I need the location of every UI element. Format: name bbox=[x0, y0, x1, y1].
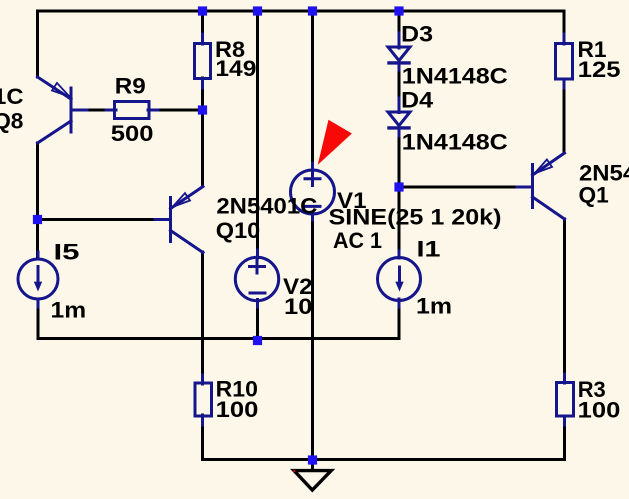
resistor R8 bbox=[195, 34, 211, 88]
wire R9 to junction bbox=[148, 109, 203, 112]
svg-text:1N4148C: 1N4148C bbox=[402, 130, 508, 155]
red speck at ground corner bbox=[293, 470, 295, 472]
resistor R1 bbox=[556, 34, 573, 88]
wire V1 top column bbox=[311, 11, 314, 171]
svg-text:100: 100 bbox=[216, 397, 259, 422]
svg-text:D3: D3 bbox=[401, 22, 433, 47]
svg-text:1m: 1m bbox=[51, 298, 87, 323]
svg-text:100: 100 bbox=[578, 398, 621, 423]
svg-text:R9: R9 bbox=[115, 74, 146, 99]
junction ground bbox=[308, 455, 317, 464]
voltage source V2 bbox=[235, 250, 278, 307]
svg-text:D4: D4 bbox=[401, 88, 434, 113]
wire D3 to D4 bbox=[398, 63, 401, 112]
svg-text:SINE(25 1 20k): SINE(25 1 20k) bbox=[329, 205, 502, 230]
svg-text:149: 149 bbox=[215, 56, 256, 81]
wire V1 bottom to ground bbox=[311, 214, 314, 471]
svg-text:I5: I5 bbox=[54, 240, 80, 265]
wire R8 bottom to junction to Q10 emitter bbox=[201, 78, 204, 186]
resistor R10 bbox=[195, 375, 212, 425]
mouse cursor red arrow bbox=[318, 120, 352, 165]
wire R10 bottom to ground rail bbox=[203, 415, 565, 460]
wire Q10 base bbox=[38, 218, 169, 221]
svg-text:500: 500 bbox=[111, 121, 154, 146]
transistor Q1 bbox=[517, 153, 565, 219]
wire R1 to Q1 emitter bbox=[563, 79, 566, 153]
wire Q1 collector to R3 bbox=[563, 219, 566, 383]
svg-text:AC 1: AC 1 bbox=[333, 228, 382, 253]
svg-text:10: 10 bbox=[284, 294, 312, 319]
wire diode column bbox=[398, 11, 401, 47]
wire Q10 collector to R10 bbox=[201, 252, 204, 384]
junction top rail D3 bbox=[394, 6, 403, 15]
junction top rail V1 bbox=[308, 6, 317, 15]
diode D3 bbox=[388, 33, 410, 70]
svg-text:Q10: Q10 bbox=[216, 218, 260, 243]
transistor Q10 bbox=[155, 187, 203, 253]
junction top rail R8 bbox=[198, 6, 207, 15]
resistor R9 bbox=[106, 102, 158, 119]
junction Q10 base bbox=[33, 215, 42, 224]
wire R8 column bbox=[201, 11, 204, 44]
junction R9 R8 Q10 bbox=[198, 105, 207, 114]
wire V2 top column bbox=[256, 11, 259, 258]
wire Q1 base bbox=[399, 186, 531, 189]
junction top rail V2 bbox=[253, 6, 262, 15]
wire Q8 collector down to I5 bbox=[36, 143, 39, 259]
diode D4 bbox=[388, 98, 410, 136]
svg-text:I1: I1 bbox=[417, 237, 441, 262]
svg-text:Q1: Q1 bbox=[579, 183, 609, 208]
svg-text:Q8: Q8 bbox=[0, 109, 23, 134]
junction V2 bottom bbox=[253, 336, 262, 345]
svg-text:125: 125 bbox=[578, 57, 621, 82]
svg-text:2N5401C: 2N5401C bbox=[0, 84, 24, 109]
resistor R3 bbox=[557, 374, 574, 425]
voltage source V1 bbox=[291, 163, 335, 220]
svg-text:1m: 1m bbox=[416, 294, 452, 319]
wire Q8 base to R9 bbox=[73, 109, 116, 112]
svg-text:2N5401C: 2N5401C bbox=[216, 194, 317, 219]
junction Q1 base D4 I1 bbox=[394, 182, 403, 191]
ground symbol bbox=[294, 471, 331, 490]
current source I5 bbox=[18, 252, 58, 307]
wire I5 bottom to mid rail bbox=[38, 299, 399, 339]
wire D4 to junction to I1 bbox=[398, 128, 401, 258]
svg-text:1N4148C: 1N4148C bbox=[402, 64, 508, 89]
wire top rail bbox=[38, 11, 565, 77]
current source I1 bbox=[378, 251, 421, 307]
transistor Q8 bbox=[38, 77, 88, 143]
wire V2 bottom stub bbox=[256, 300, 259, 341]
